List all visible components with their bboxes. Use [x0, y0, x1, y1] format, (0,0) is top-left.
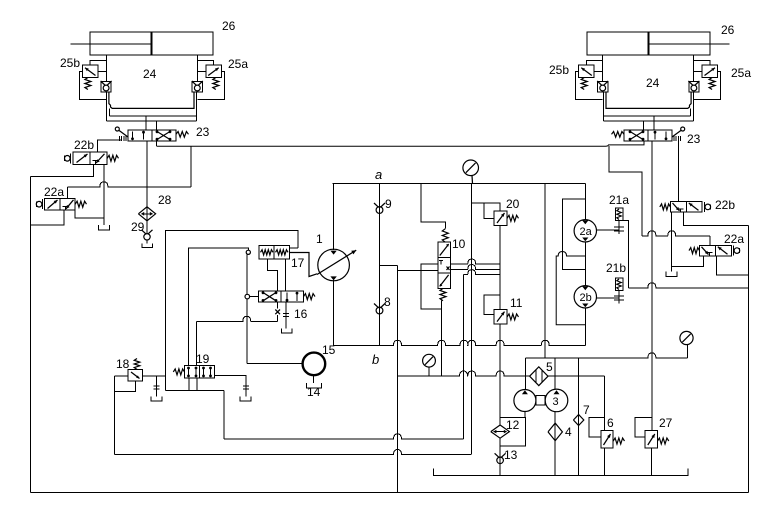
- valve 23 left crossed arrows: [157, 132, 170, 140]
- wire valve 23 top port B (left): [156, 121, 158, 130]
- valve 22a left spring: [75, 201, 86, 207]
- tank 22ab left: [98, 225, 109, 230]
- valve 11 spring: [507, 314, 518, 320]
- wire left port down to lower rail (right): [693, 92, 695, 121]
- svg-text:26: 26: [721, 23, 735, 37]
- svg-text:22a: 22a: [44, 185, 64, 199]
- valve 10 top spring: [442, 229, 448, 243]
- wire 22a right out: [717, 256, 749, 275]
- svg-text:6: 6: [607, 416, 614, 430]
- wire cylinder left port (right): [693, 55, 695, 81]
- svg-text:21a: 21a: [609, 193, 629, 207]
- svg-text:25b: 25b: [60, 56, 80, 70]
- valve 22a right body: [700, 245, 732, 256]
- wire valve17 top feed stub: [290, 247, 298, 249]
- wire to valve17 pilot: [189, 248, 249, 366]
- tank under valve 16: [282, 329, 293, 333]
- svg-text:25a: 25a: [228, 57, 248, 71]
- wire filter 5 left: [525, 375, 529, 377]
- wire 22a tank port: [75, 210, 104, 218]
- svg-text:9: 9: [385, 197, 392, 211]
- valve 16 body: [259, 291, 304, 302]
- wire node line to valve17 feed: [166, 230, 298, 376]
- wire a-bus down to motors: [584, 183, 586, 219]
- wire valve 18 right rail: [143, 375, 166, 377]
- svg-text:2b: 2b: [580, 292, 592, 304]
- tank left under 18/19: [151, 396, 162, 401]
- svg-text:2a: 2a: [580, 226, 593, 238]
- valve 22b left button: [70, 153, 72, 163]
- valve 6 spring: [613, 438, 624, 444]
- wire lower rail (right): [604, 120, 694, 122]
- valve 22a right spring: [689, 248, 700, 254]
- wire valve 20 feed: [472, 203, 500, 211]
- wire 2a to restrictor 21a: [597, 229, 620, 231]
- svg-text:18: 18: [116, 357, 130, 371]
- valve 22a right arrows: [718, 247, 728, 254]
- svg-text:22b: 22b: [74, 138, 94, 152]
- wire pump top to a-bus: [332, 183, 334, 250]
- svg-text:10: 10: [452, 237, 466, 251]
- wire left port down to lower rail (left): [105, 92, 107, 121]
- left pilot rail: [68, 182, 191, 187]
- filter 12: [491, 425, 510, 438]
- motor 2a circle: [574, 220, 596, 242]
- svg-text:21b: 21b: [606, 261, 626, 275]
- wire valve 18 left: [115, 375, 128, 377]
- svg-text:25a: 25a: [731, 66, 751, 80]
- gauge line: [525, 353, 687, 358]
- valve 6 body: [601, 430, 613, 448]
- valve 23 left spring: [176, 132, 189, 138]
- wire a-bus to valve 10: [421, 183, 445, 228]
- wire cylinder right port (left): [196, 55, 198, 81]
- wire valve 18 drain loop: [115, 381, 136, 392]
- check valve 8: [374, 304, 379, 308]
- cylinder 26 (left): [90, 32, 213, 55]
- valve 23 right body: [624, 130, 672, 141]
- valve 22a left arrows: [48, 200, 58, 209]
- wire valve 23 top port B (right): [643, 121, 645, 130]
- valve10 right port 3: [464, 270, 501, 275]
- svg-text:26: 26: [222, 19, 236, 33]
- wire pump left bottom: [524, 412, 526, 418]
- check valve 13: [495, 453, 500, 457]
- node a bus: [332, 182, 585, 184]
- wire a-bus branch to valve 20: [471, 183, 473, 454]
- svg-text:4: 4: [565, 425, 572, 439]
- wire cylinder left port (left): [105, 55, 107, 81]
- wire 22b right out: [684, 212, 749, 225]
- wire 21a link down: [623, 221, 629, 288]
- valve 23 left body: [128, 130, 176, 141]
- wire between motors: [584, 242, 586, 286]
- valve 10 bottom section arrows: [440, 275, 449, 286]
- wire cross line (left): [109, 92, 194, 108]
- counterbalance valve 25b (left) spring: [85, 78, 91, 90]
- svg-text:24: 24: [646, 76, 660, 90]
- valve 11 pilot: [484, 295, 500, 315]
- restrictor 21a: [615, 208, 623, 221]
- wire valve 19 drain header: [166, 390, 225, 392]
- wire valve23R through line down: [651, 141, 653, 430]
- valve 18 spring: [134, 359, 140, 370]
- wire middle rail riser (right): [690, 108, 692, 116]
- valve 27 pilot loop: [635, 417, 652, 437]
- valve 23 right straight arrows: [654, 132, 656, 140]
- orifice 7 line: [577, 358, 579, 476]
- svg-text:a: a: [375, 167, 382, 182]
- wire valve10 bottom drain: [441, 301, 443, 376]
- check valve box 25a (right): [598, 81, 608, 92]
- wire check branch: [379, 183, 381, 345]
- pilot line down to charge pump: [246, 254, 248, 294]
- pump 1 variable arrow: [317, 250, 356, 274]
- wire valve23L through line down: [146, 141, 148, 187]
- valve 22b left spring: [107, 155, 118, 161]
- counterbalance valve 25b (right) spring: [709, 78, 715, 90]
- wire 25b box to port (right): [694, 71, 702, 73]
- wire valve 19 bottom ports: [188, 378, 190, 390]
- gauge on b bus: [423, 354, 436, 367]
- valve 20 spring: [507, 215, 518, 221]
- svg-text:16: 16: [294, 307, 308, 321]
- strainer 14: [306, 383, 321, 388]
- svg-text:24: 24: [143, 67, 157, 81]
- wire 25b top branch (right): [694, 61, 710, 66]
- wire valve23L bottom to long line: [156, 141, 158, 146]
- wire long line branch down: [609, 146, 642, 236]
- svg-text:27: 27: [659, 416, 673, 430]
- svg-text:20: 20: [506, 197, 520, 211]
- wire 22a bottom to border: [31, 210, 64, 225]
- filter 28: [138, 207, 155, 221]
- tank rail: [433, 469, 687, 476]
- filter 12 bypass loop: [500, 417, 525, 446]
- svg-text:b: b: [372, 352, 379, 367]
- svg-text:28: 28: [158, 193, 172, 207]
- orifice 7: [573, 415, 583, 426]
- wire 25a top branch (right): [586, 61, 602, 66]
- svg-text:29: 29: [131, 220, 145, 234]
- counterbalance valve 25a (left) relief box: [206, 65, 222, 77]
- svg-text:3: 3: [553, 396, 559, 408]
- tank right under 19: [240, 397, 251, 402]
- bottom border drain: [31, 492, 749, 494]
- svg-text:22b: 22b: [715, 198, 735, 212]
- check valve box 25a (left): [192, 81, 202, 92]
- wire a-bus to gauge line: [544, 183, 546, 358]
- wire cylinder right port (right): [602, 55, 604, 81]
- svg-text:13: 13: [504, 448, 518, 462]
- svg-text:5: 5: [546, 360, 553, 374]
- valve 22b right button: [703, 202, 705, 212]
- valve 10 middle section symbols: [440, 261, 442, 265]
- wire valve17 bottom ports: [268, 259, 278, 291]
- valve 27 spring: [658, 438, 669, 444]
- valve 19 check symbols: [188, 367, 190, 376]
- valve 6 pilot loop: [589, 417, 604, 437]
- wire 25a outer loop (right): [576, 72, 603, 100]
- svg-text:7: 7: [583, 403, 590, 417]
- svg-text:11: 11: [510, 296, 523, 310]
- valve 23 right crossed arrows: [630, 132, 643, 140]
- wire middle rail (right): [604, 115, 691, 117]
- valve 17 throttle symbols: [261, 250, 274, 255]
- wire 22b top to valve 23L pilot: [97, 140, 121, 152]
- wire b line to valve 6: [603, 376, 605, 430]
- wire 25b outer loop (right): [694, 72, 721, 100]
- valve 18 drain line: [115, 450, 472, 455]
- valve 23 left lever: [115, 127, 119, 131]
- wire valve 6 to rail: [603, 448, 605, 476]
- wire valve17 out to pump control: [290, 253, 317, 277]
- check valve box 25b (right): [689, 81, 699, 92]
- valve 16 crossed arrows: [263, 293, 276, 301]
- svg-text:12: 12: [506, 418, 520, 432]
- valve 16 tank port: [285, 302, 287, 328]
- valve 19 spring: [173, 369, 184, 375]
- valve 16 pilot circle: [245, 294, 250, 299]
- counterbalance valve 25a (left) spring: [213, 78, 219, 90]
- tank 22ab right: [666, 272, 677, 277]
- right border drain: [747, 225, 749, 492]
- svg-text:23: 23: [196, 125, 210, 139]
- wire B-net to 22a right: [642, 231, 710, 236]
- counterbalance valve 25a (right) spring: [581, 78, 587, 90]
- valve 16 plugged port: [277, 302, 279, 308]
- wire 22b right pilot up to valve 23R: [677, 141, 679, 202]
- wire 22b bottom to left border: [31, 164, 94, 176]
- valve 17 body: [259, 246, 290, 259]
- valve 17 pilot circle: [246, 250, 250, 254]
- svg-text:19: 19: [196, 352, 210, 366]
- wire valve 20 bottom: [499, 226, 501, 310]
- wire 22b right tank port: [671, 212, 673, 272]
- wire 21b to right drain riser: [629, 283, 749, 288]
- wire valve16 drain to valve19: [197, 316, 278, 321]
- valve10 left upper port loop: [421, 264, 441, 309]
- wire 22b tank port down: [103, 164, 105, 225]
- valve 23 left straight arrows: [132, 132, 134, 140]
- wire valve 18 left drop: [114, 376, 116, 454]
- wire tee to b drop: [380, 264, 398, 266]
- wire 25a outer loop (left): [197, 72, 224, 100]
- wire 22a right tank port: [672, 256, 704, 267]
- wire 25b box to port (left): [98, 71, 106, 73]
- wire pump bottom suction: [333, 280, 335, 345]
- wire valve 23 top port A (left): [145, 116, 147, 130]
- wire middle rail (left): [109, 115, 196, 117]
- valve 20 body: [494, 211, 507, 226]
- wire middle rail riser (left): [108, 108, 110, 116]
- drain drop from valve10: [463, 275, 465, 439]
- wire 2b to restrictor 21b: [597, 297, 620, 299]
- svg-text:1: 1: [316, 232, 323, 246]
- restrictor 21b: [615, 278, 623, 291]
- gauge on a-bus: [463, 160, 479, 176]
- pump 1 circle: [318, 249, 350, 281]
- pump coupling box: [536, 396, 545, 406]
- svg-text:25b: 25b: [549, 63, 569, 77]
- svg-text:14: 14: [307, 385, 321, 399]
- gauge on line 27: [680, 331, 693, 344]
- return line from 2b: [334, 340, 586, 345]
- b bus line: [398, 371, 526, 376]
- wire lower rail (left): [106, 120, 196, 122]
- left border drain: [30, 177, 32, 493]
- pump circle left: [514, 390, 536, 412]
- wire filter 5 right: [548, 375, 604, 377]
- b drop line: [397, 265, 399, 492]
- valve 16 straight arrows: [286, 293, 288, 301]
- valve 11 body: [494, 310, 507, 325]
- wire valve 27 to rail: [650, 448, 652, 476]
- wire 2b bottom: [584, 308, 586, 345]
- wire pilot to circle 15: [247, 362, 303, 364]
- valve 22a left button: [42, 199, 44, 209]
- wire 22a top port: [67, 187, 69, 199]
- cylinder 26 (right): [587, 32, 710, 55]
- valve 23 right spring: [612, 132, 625, 138]
- wire cross line (right): [606, 92, 691, 108]
- valve 23 right lever: [681, 127, 685, 131]
- wire 25a check outlet down (right): [603, 92, 605, 121]
- wire valve 11 bottom to filter 12: [499, 324, 501, 425]
- valve 20 pilot: [484, 203, 494, 218]
- filter 4: [548, 423, 562, 441]
- wire charge pump down: [312, 375, 314, 383]
- svg-text:8: 8: [384, 295, 391, 309]
- counterbalance valve 25b (right) relief box: [702, 65, 718, 77]
- pump circle 3: [545, 389, 568, 412]
- valve 16 spring: [304, 294, 316, 300]
- valve10 right port 2: [450, 265, 500, 270]
- motor 2a bypass loop: [562, 199, 585, 269]
- valve 10 bottom spring: [440, 288, 446, 300]
- wire circle 3 bottom: [554, 412, 556, 476]
- valve 27 body: [645, 430, 657, 448]
- valve 22b right body: [670, 202, 702, 213]
- valve 22b right spring: [660, 204, 671, 210]
- tank under 29: [142, 244, 153, 248]
- valve 10 body: [438, 242, 450, 288]
- valve 19 drain line: [224, 434, 464, 439]
- charge pump 15 circle: [303, 353, 326, 376]
- motor 2b circle: [574, 286, 596, 308]
- wire 25a check outlet down (left): [195, 92, 197, 121]
- left tank drop: [155, 376, 157, 396]
- valve 22b left body: [73, 152, 107, 164]
- valve 10 top section arrows: [440, 244, 449, 255]
- wire 25a top branch (left): [197, 61, 213, 66]
- valve 18 body: [128, 369, 143, 381]
- counterbalance valve 25b (left) relief box: [82, 65, 98, 77]
- wire valve 19 right to tank: [214, 376, 246, 397]
- valve 22a right button: [733, 246, 735, 256]
- wire circle 3 top: [554, 358, 556, 390]
- wire gauge-line corner down: [524, 358, 526, 390]
- long line valve23L to valve23R: [157, 141, 645, 146]
- valve 22b right arrows: [689, 203, 699, 210]
- check valve 29: [142, 230, 147, 234]
- valve 22a left body: [45, 198, 75, 210]
- valve10 left lower port: [398, 269, 439, 271]
- motor 2a bottom crossover: [556, 252, 585, 325]
- check valve box 25b (left): [101, 81, 111, 92]
- filter 5: [530, 367, 548, 386]
- svg-text:17: 17: [291, 256, 305, 270]
- valve 22b left arrows: [77, 154, 88, 163]
- wire 22a right pilot up: [709, 236, 711, 246]
- wire 25a box to port (left): [197, 71, 205, 73]
- valve10 right port 1: [450, 259, 500, 264]
- wire 25a box to port (right): [594, 71, 602, 73]
- wire 28 to 29: [146, 187, 148, 234]
- check valve 9: [374, 203, 379, 207]
- valve 19 body: [185, 366, 215, 379]
- counterbalance valve 25a (right) relief box: [579, 65, 595, 77]
- wire tee down from long line: [190, 146, 192, 187]
- wire 12 to 13: [499, 438, 501, 475]
- wire 29 to tank: [146, 240, 148, 244]
- svg-text:23: 23: [687, 132, 701, 146]
- wire valve 23 top port A (right): [653, 116, 655, 130]
- wire drain drop x224: [223, 391, 225, 439]
- wire 25b top branch (left): [90, 61, 106, 66]
- wire 25b outer loop (left): [79, 72, 106, 100]
- svg-text:22a: 22a: [724, 232, 744, 246]
